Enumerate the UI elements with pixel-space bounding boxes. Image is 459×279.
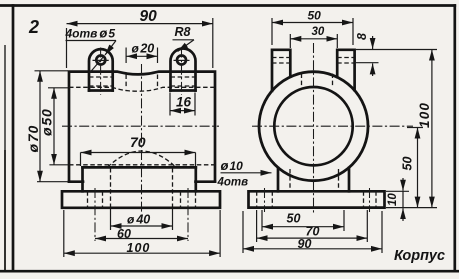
dim phi70 line bbox=[39, 71, 41, 182]
dim 90 bottom line bbox=[243, 248, 382, 250]
boss left side bbox=[81, 167, 84, 191]
R8 underline + leader bbox=[173, 39, 195, 41]
svg-text:60: 60 bbox=[117, 227, 131, 241]
base hole centerline right bbox=[187, 188, 189, 241]
label underline + leader bbox=[66, 40, 117, 42]
support right side bbox=[348, 168, 351, 191]
svg-text:30: 30 bbox=[312, 26, 325, 38]
dim 16 line bbox=[170, 110, 195, 112]
dim 70 line bbox=[81, 152, 196, 154]
right lug outline bbox=[171, 49, 196, 91]
svg-text:10: 10 bbox=[387, 193, 399, 206]
svg-text:ø20: ø20 bbox=[132, 42, 155, 56]
side lug left bbox=[272, 50, 290, 91]
dim 8 arrows outside bbox=[372, 36, 374, 49]
side base hole hidden lines left bbox=[257, 191, 273, 207]
svg-text:90: 90 bbox=[140, 8, 158, 25]
svg-text:2: 2 bbox=[28, 17, 39, 37]
dim 100 line bbox=[64, 252, 220, 254]
svg-text:8: 8 bbox=[355, 33, 369, 40]
left lug outline bbox=[89, 49, 113, 90]
right lug hidden lines bbox=[171, 77, 196, 86]
boss right side bbox=[194, 167, 197, 191]
body outline (cylinder rectangle) with broken-out dip on top bbox=[69, 72, 215, 182]
svg-text:50: 50 bbox=[401, 157, 415, 171]
dim phi20 line bbox=[126, 55, 157, 57]
bore hidden line bottom (dashed) bbox=[69, 164, 215, 166]
sheet frame border bottom bbox=[0, 270, 459, 273]
support hidden lines bbox=[290, 169, 339, 191]
dim 50 vertical: top extension bbox=[407, 127, 423, 129]
svg-text:4отвø5: 4отвø5 bbox=[65, 26, 116, 41]
left lug hidden lines bbox=[89, 77, 113, 86]
body bottom edge left segment bbox=[69, 180, 83, 183]
dim 50 top: extensions bbox=[272, 18, 353, 45]
phi40 recess hidden walls bbox=[110, 168, 112, 208]
dim phi20: extensions bbox=[126, 48, 157, 64]
inner circle phi50 bbox=[274, 87, 352, 165]
dim 90 bottom: extensions bbox=[243, 211, 382, 253]
dim phi70: extensions bbox=[35, 71, 69, 182]
dim 90 top: extension lines bbox=[67, 18, 213, 68]
dim 30: extensions bbox=[290, 34, 337, 48]
phi40 dim extension lines bbox=[111, 208, 173, 230]
left hole centerlines bbox=[100, 48, 102, 96]
svg-text:R8: R8 bbox=[175, 25, 191, 39]
svg-text:90: 90 bbox=[298, 237, 312, 251]
svg-text:70: 70 bbox=[130, 134, 146, 150]
right lug bottom edge bbox=[171, 89, 196, 92]
dim 50 vertical line bbox=[417, 128, 419, 208]
support left side bbox=[277, 168, 280, 191]
svg-text:ø50: ø50 bbox=[39, 108, 55, 136]
boss top edge bbox=[83, 166, 196, 169]
dim 70: extensions bbox=[81, 153, 196, 167]
left lug hole phi5 bbox=[96, 56, 105, 65]
dim 10: extensions bbox=[386, 191, 437, 207]
svg-text:50: 50 bbox=[308, 9, 322, 23]
dim 70 bottom: extensions bbox=[257, 210, 368, 242]
right lug hole phi5 bbox=[177, 56, 186, 65]
left lug bottom edge bbox=[89, 89, 113, 92]
dim 30 line bbox=[290, 38, 337, 40]
dim 8: extension lines bbox=[356, 50, 437, 63]
dim 60 line bbox=[95, 238, 188, 240]
lug hole hidden lines right bbox=[337, 58, 354, 64]
dim phi40 line bbox=[111, 225, 173, 227]
lug hole hidden lines left bbox=[272, 58, 290, 64]
side lug right bbox=[337, 50, 354, 90]
base hole centerline left bbox=[94, 188, 96, 241]
dim 50 bottom line bbox=[262, 226, 344, 228]
sheet frame border top bbox=[0, 4, 455, 7]
vertical centerline bbox=[141, 64, 143, 212]
base plate outline bbox=[62, 191, 220, 208]
horizontal centerline bbox=[62, 125, 219, 127]
label shelf + arrow bbox=[221, 172, 272, 174]
side base plate bbox=[249, 191, 385, 207]
svg-text:50: 50 bbox=[287, 212, 301, 226]
dim phi50: extensions bbox=[48, 88, 68, 165]
dim 100 vertical line bbox=[431, 50, 433, 208]
dim phi50 line bbox=[53, 88, 55, 165]
page scan edge bbox=[4, 45, 6, 271]
outer circle phi70 bbox=[259, 72, 368, 181]
phi20 hole hidden sides bbox=[126, 75, 157, 89]
svg-text:ø10: ø10 bbox=[221, 158, 244, 173]
dim 50 top line bbox=[272, 22, 353, 24]
svg-text:ø40: ø40 bbox=[127, 213, 150, 227]
dim 70 bottom line bbox=[257, 237, 368, 239]
dim 16: extensions bbox=[170, 93, 195, 116]
side horizontal centerline bbox=[252, 125, 413, 127]
body bottom edge right segment bbox=[196, 180, 216, 183]
side base hole centerlines bbox=[265, 188, 370, 212]
right hole centerlines bbox=[181, 48, 183, 96]
svg-text:100: 100 bbox=[417, 102, 432, 128]
dome hidden arc (phi40 recess) bbox=[108, 151, 176, 167]
side vertical centerline bbox=[313, 43, 315, 215]
side base hole hidden lines right bbox=[364, 191, 377, 207]
svg-text:100: 100 bbox=[127, 241, 151, 255]
svg-text:Корпус: Корпус bbox=[394, 248, 445, 264]
base hole hidden lines right bbox=[181, 191, 196, 208]
base hole hidden lines left bbox=[88, 191, 103, 208]
phi20 hole hidden lines bbox=[302, 74, 333, 87]
sheet frame border left bbox=[12, 6, 15, 272]
dim 10 line + outside arrows bbox=[402, 178, 404, 191]
bore hidden line top (dashed, with dip) bbox=[69, 87, 215, 91]
dim 90 line bbox=[67, 23, 213, 25]
sheet frame border right bbox=[453, 6, 456, 272]
dim 50 bottom: extensions bbox=[262, 210, 344, 231]
svg-text:4отв: 4отв bbox=[217, 177, 249, 189]
dim 100: extensions bbox=[64, 210, 220, 257]
svg-text:16: 16 bbox=[176, 95, 192, 110]
